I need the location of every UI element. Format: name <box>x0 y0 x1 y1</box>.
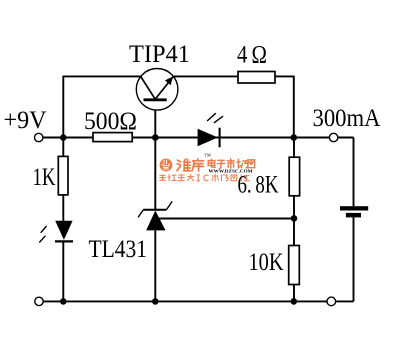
svg-text:1K: 1K <box>33 164 56 191</box>
svg-text:TL431: TL431 <box>89 236 148 263</box>
svg-text:6. 8K: 6. 8K <box>238 172 279 199</box>
svg-text:500Ω: 500Ω <box>84 108 137 135</box>
svg-text:10K: 10K <box>249 249 284 276</box>
svg-text:TIP41: TIP41 <box>129 41 190 68</box>
svg-text:+9V: +9V <box>4 107 47 134</box>
svg-text:4 Ω: 4 Ω <box>237 42 267 69</box>
svg-text:TM: TM <box>204 153 211 158</box>
svg-text:300mA: 300mA <box>313 105 381 132</box>
